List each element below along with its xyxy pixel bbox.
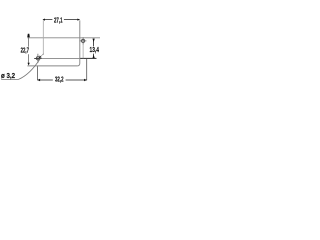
dim 27,1 right arrow — [77, 19, 79, 21]
dim 22,7 top arrow — [27, 34, 30, 38]
bottom dim line 32,2 — [38, 79, 87, 81]
leader line from hole label — [1, 59, 40, 80]
device right edge with rounded corner — [77, 20, 80, 66]
svg-text:13,4: 13,4 — [90, 45, 100, 54]
left hole circle — [36, 57, 39, 60]
device bottom edge — [27, 65, 77, 67]
leader tail to upper right — [41, 54, 44, 57]
device mid edge darker right segment — [80, 57, 96, 59]
dim 27,1 left arrow — [43, 19, 45, 21]
left hole vertical crosshair — [37, 54, 39, 63]
svg-text:ø 3,2: ø 3,2 — [1, 71, 15, 80]
bottom dim extension line x86.7 — [86, 59, 88, 81]
right dim line 13,4 — [93, 39, 95, 58]
svg-text:27,1: 27,1 — [54, 15, 63, 24]
dim 13,4 top arrow — [93, 39, 95, 43]
bottom dim extension line x37.5 — [37, 66, 39, 80]
svg-text:22,7: 22,7 — [21, 46, 29, 55]
device mid edge — [34, 57, 96, 59]
right hole horizontal crosshair — [80, 40, 87, 42]
dim 22,7 bottom arrow — [28, 63, 30, 66]
top dim line 27,1 — [43, 19, 79, 21]
dim 13,4 bottom arrow — [93, 55, 95, 59]
right hole centerline down to mid edge — [82, 45, 84, 59]
right hole circle — [81, 39, 84, 42]
left edge / dim line 22,7 vertical — [28, 37, 30, 63]
dim 32,2 right arrow — [84, 79, 87, 81]
dim 32,2 left arrow — [37, 79, 40, 81]
leader arrowhead at hole — [39, 55, 42, 58]
svg-text:32,2: 32,2 — [55, 74, 64, 83]
device top edge — [27, 37, 100, 39]
right hole vertical crosshair — [82, 37, 84, 44]
left hole horizontal crosshair darker — [34, 57, 41, 59]
extension line x43.3 from top dim — [42, 20, 44, 55]
